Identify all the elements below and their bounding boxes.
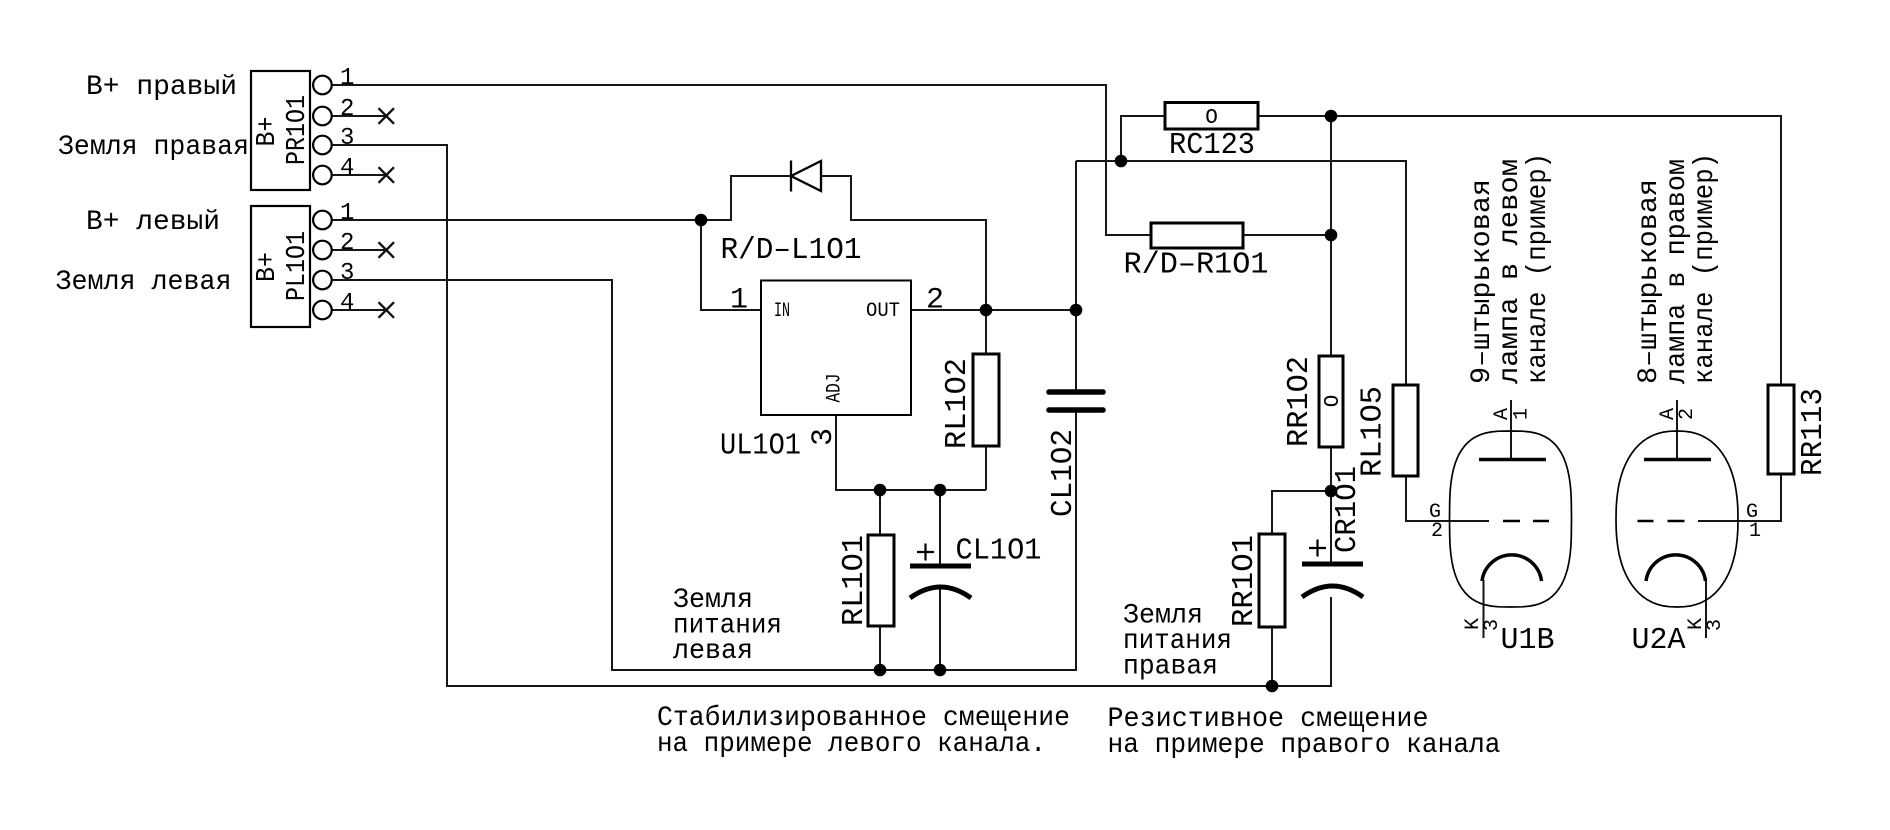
svg-text:2: 2 [340, 96, 354, 123]
svg-text:RR1O2: RR1O2 [1282, 356, 1317, 447]
svg-text:8–штырьковая: 8–штырьковая [1634, 179, 1665, 384]
svg-text:3: 3 [340, 260, 354, 287]
svg-text:RL1O1: RL1O1 [837, 535, 872, 626]
svg-text:канале (пример): канале (пример) [1690, 153, 1721, 384]
svg-text:R/D–R1O1: R/D–R1O1 [1124, 248, 1269, 283]
svg-text:4: 4 [340, 155, 354, 182]
svg-text:2: 2 [1431, 520, 1443, 543]
svg-text:R/D–L1O1: R/D–L1O1 [721, 233, 862, 268]
svg-text:1: 1 [340, 200, 354, 227]
svg-text:9–штырьковая: 9–штырьковая [1467, 179, 1498, 384]
svg-text:RL1O5: RL1O5 [1356, 386, 1391, 477]
svg-text:3: 3 [807, 428, 841, 446]
svg-text:CL1O2: CL1O2 [1046, 429, 1081, 517]
svg-text:В+ правый: В+ правый [86, 72, 237, 103]
svg-text:CR1O1: CR1O1 [1330, 466, 1365, 553]
svg-text:RL1O2: RL1O2 [940, 358, 975, 449]
svg-text:IN: IN [774, 300, 790, 323]
svg-text:OUT: OUT [866, 300, 900, 323]
svg-text:B+: B+ [253, 117, 283, 147]
svg-text:правая: правая [1123, 652, 1218, 683]
svg-text:на примере правого канала: на примере правого канала [1108, 730, 1501, 761]
svg-text:лампа в левом: лампа в левом [1495, 159, 1526, 384]
svg-text:2: 2 [1676, 408, 1699, 420]
svg-text:RC123: RC123 [1169, 128, 1255, 163]
svg-text:левая: левая [673, 636, 753, 667]
svg-text:4: 4 [340, 290, 354, 317]
svg-text:3: 3 [340, 125, 354, 152]
svg-text:U1B: U1B [1501, 623, 1555, 658]
svg-text:на примере левого канала.: на примере левого канала. [657, 729, 1046, 760]
svg-text:Земля правая: Земля правая [58, 132, 249, 163]
svg-text:1: 1 [1749, 520, 1761, 543]
svg-text:2: 2 [926, 284, 944, 318]
svg-text:CL1O1: CL1O1 [956, 534, 1042, 569]
svg-text:O: O [1205, 107, 1218, 130]
svg-text:RR113: RR113 [1796, 388, 1831, 476]
svg-text:В+ левый: В+ левый [86, 207, 220, 238]
svg-text:PR1O1: PR1O1 [283, 95, 313, 165]
svg-text:UL1O1: UL1O1 [720, 429, 801, 464]
svg-text:ADJ: ADJ [824, 374, 847, 403]
svg-text:лампа в правом: лампа в правом [1662, 159, 1693, 384]
svg-text:канале (пример): канале (пример) [1523, 153, 1554, 384]
svg-text:1: 1 [340, 65, 354, 92]
svg-text:3: 3 [1704, 619, 1727, 631]
svg-text:U2A: U2A [1632, 623, 1686, 658]
svg-text:O: O [1322, 395, 1345, 408]
svg-text:B+: B+ [253, 252, 283, 282]
svg-text:RR1O1: RR1O1 [1227, 535, 1262, 627]
svg-text:Земля левая: Земля левая [56, 267, 232, 298]
svg-text:1: 1 [1511, 408, 1534, 420]
svg-text:3: 3 [1481, 619, 1504, 631]
svg-text:1: 1 [730, 284, 748, 318]
svg-text:PL1O1: PL1O1 [283, 231, 313, 301]
svg-text:2: 2 [340, 230, 354, 257]
